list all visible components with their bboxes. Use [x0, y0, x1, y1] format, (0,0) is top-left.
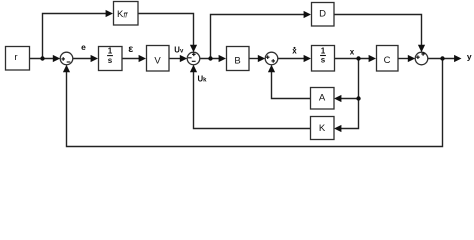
block A	[311, 88, 335, 110]
svg-text:Uk: Uk	[198, 75, 208, 84]
arrow into D	[304, 11, 311, 18]
block integrator 1/s #2	[312, 46, 335, 72]
junction node y branch	[440, 56, 444, 60]
block Kff	[114, 2, 139, 26]
block V	[147, 46, 170, 72]
svg-text:s: s	[321, 56, 326, 65]
wire V to S2	[169, 58, 182, 60]
block integrator 1/s #1	[99, 47, 123, 71]
svg-text:1: 1	[321, 47, 326, 56]
arrow into S2 top	[190, 45, 197, 52]
S1 plus sign	[61, 57, 65, 61]
arrow into integrator 1	[91, 55, 98, 62]
S3 plus sign left	[266, 55, 270, 59]
svg-text:V: V	[154, 56, 161, 67]
summing junction S1	[60, 52, 73, 65]
junction node u branch	[208, 56, 212, 60]
wire D output to S4 top	[334, 15, 422, 48]
arrow into S1 bottom	[63, 65, 70, 72]
block C	[377, 46, 399, 72]
wire branch into A	[340, 98, 359, 100]
svg-text:1: 1	[108, 47, 113, 56]
svg-text:Uv: Uv	[174, 45, 184, 54]
S4 plus sign left	[416, 55, 420, 59]
arrow into A	[334, 95, 341, 102]
wire S4 to output y	[428, 58, 455, 60]
wire Kff output to sum S2 top	[138, 14, 194, 48]
svg-text:e: e	[81, 42, 86, 52]
block K	[311, 117, 335, 140]
arrow into S3	[258, 55, 265, 62]
arrow into S1	[53, 55, 60, 62]
arrow output y	[454, 55, 461, 62]
S2 minus sign left	[188, 57, 192, 59]
arrow into S4 top	[418, 45, 425, 52]
arrow into S4	[408, 55, 415, 62]
svg-text:r: r	[14, 52, 17, 63]
S4 plus sign top	[421, 52, 425, 56]
wire S1 to integrator 1	[73, 58, 92, 60]
S2 minus sign bottom	[192, 60, 196, 62]
arrow into integrator 2	[304, 55, 311, 62]
junction node A branch	[356, 96, 360, 100]
junction node x branch	[356, 56, 360, 60]
arrow into K	[334, 125, 341, 132]
arrow into S3 bottom	[268, 65, 275, 72]
arrow into B	[219, 55, 226, 62]
wire S3 to integrator 2	[278, 58, 305, 60]
arrow into S2	[180, 55, 187, 62]
wire r output	[30, 58, 54, 60]
wire integrator1 to V	[122, 58, 140, 60]
arrow into Kff	[106, 10, 113, 17]
wire S2 to B	[200, 58, 220, 60]
svg-text:ε: ε	[128, 43, 133, 55]
summing junction S4	[415, 52, 428, 65]
wire K output to S2 bottom	[194, 71, 311, 129]
S1 minus sign	[67, 61, 71, 63]
svg-text:C: C	[384, 55, 391, 66]
svg-text:s: s	[108, 56, 113, 65]
svg-text:D: D	[319, 9, 326, 20]
S2 plus sign top	[192, 53, 196, 57]
wire x branch down to K	[340, 59, 359, 129]
wire A output to S3 bottom	[272, 71, 311, 99]
arrow into S2 bottom	[190, 65, 197, 72]
block B	[227, 47, 250, 71]
svg-text:K: K	[319, 123, 326, 134]
arrow into V	[139, 55, 146, 62]
junction node after r	[40, 56, 44, 60]
arrow into C	[369, 55, 376, 62]
svg-text:y: y	[467, 52, 472, 62]
wire B to S3	[249, 58, 260, 60]
block D	[312, 3, 335, 27]
svg-text:A: A	[319, 93, 326, 104]
summing junction S3	[265, 52, 278, 65]
wire y feedback to S1	[67, 59, 443, 147]
wire C to S4	[398, 58, 410, 60]
svg-text:x: x	[350, 47, 355, 56]
wire branch up to Kff	[43, 14, 107, 59]
wire integrator2 to C	[335, 58, 370, 60]
svg-text:B: B	[234, 56, 240, 67]
block r	[6, 47, 30, 71]
summing junction S2	[187, 52, 200, 65]
S3 plus sign bottom	[271, 59, 275, 63]
wire branch up to D	[211, 15, 306, 59]
